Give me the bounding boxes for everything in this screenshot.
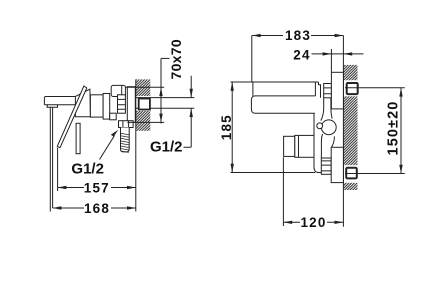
svg-text:G1/2: G1/2 <box>71 161 104 178</box>
svg-text:24: 24 <box>293 48 310 63</box>
svg-text:185: 185 <box>219 114 234 140</box>
svg-text:168: 168 <box>84 201 110 216</box>
svg-text:150±20: 150±20 <box>385 101 401 156</box>
svg-text:70x70: 70x70 <box>168 39 184 79</box>
svg-text:157: 157 <box>84 181 110 196</box>
svg-text:183: 183 <box>285 28 311 43</box>
svg-text:120: 120 <box>300 215 326 230</box>
svg-text:G1/2: G1/2 <box>150 138 183 155</box>
